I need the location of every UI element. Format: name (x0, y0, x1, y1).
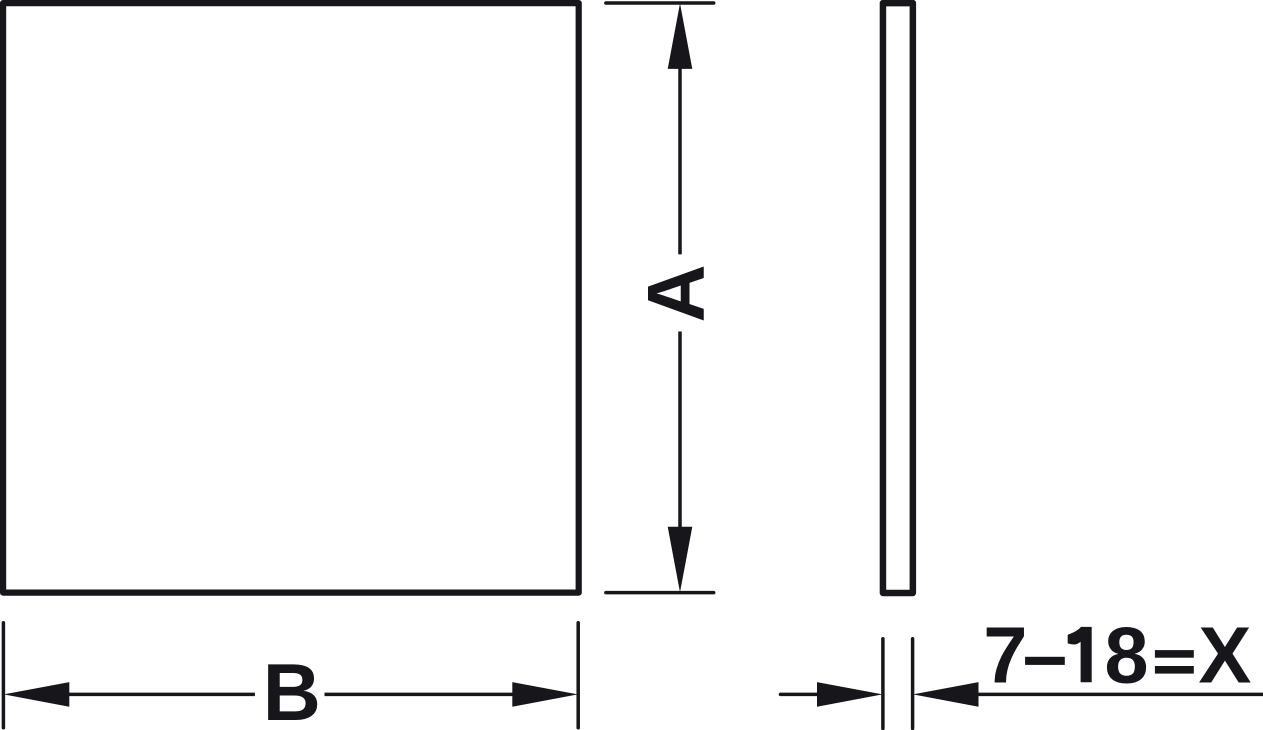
label 7-18=X : en dash (1025, 657, 1065, 665)
svg-text:7: 7 (983, 610, 1027, 699)
dimension A bottom extension line (606, 591, 714, 595)
svg-text:B: B (263, 648, 321, 730)
label 7-18=X : digit 1 (1068, 627, 1092, 682)
dimension A top extension line (606, 1, 714, 5)
dimension X right arrowhead pointing left (913, 682, 979, 707)
svg-text:X: X (1198, 610, 1251, 699)
panel front view square (3, 3, 579, 593)
svg-text:A: A (632, 264, 722, 322)
dimension X left arrowhead pointing right (817, 682, 883, 707)
dimension A line upper segment (678, 64, 682, 254)
dimension A line lower segment (678, 332, 682, 532)
dimension B line left segment (66, 693, 255, 697)
dimension B left extension line (2, 623, 6, 728)
dimension B right extension line (576, 623, 580, 728)
dimension B line right segment (325, 693, 516, 697)
dimension X right extension line (911, 639, 915, 729)
dimension A arrowhead down (668, 527, 693, 593)
dimension X left tail line (781, 693, 819, 697)
dimension A arrowhead up (668, 3, 693, 69)
dimension X left extension line (881, 639, 885, 729)
dimension B arrowhead left (4, 682, 70, 707)
label 7-18=X : equals sign (1155, 650, 1194, 658)
dimension X right tail line (978, 693, 1263, 697)
dimension B arrowhead right (512, 682, 578, 707)
svg-text:8: 8 (1104, 610, 1148, 699)
panel side view slab (883, 3, 913, 593)
